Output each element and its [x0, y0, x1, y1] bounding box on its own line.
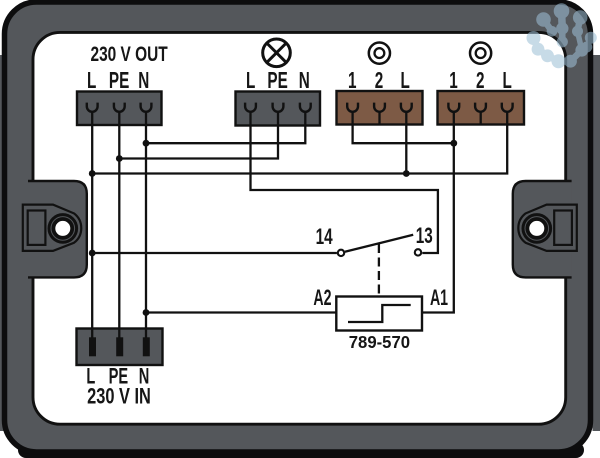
wire N vertical [145, 112, 147, 338]
wire PE vertical [118, 112, 120, 338]
svg-text:230 V IN: 230 V IN [87, 384, 151, 409]
svg-text:230 V OUT: 230 V OUT [90, 41, 168, 65]
switch blade [345, 235, 413, 252]
svg-text:N: N [138, 68, 149, 94]
left screw hole [53, 219, 72, 238]
svg-text:1: 1 [449, 68, 457, 94]
junction node L/switch [89, 250, 96, 257]
terminal block lamp output [236, 92, 321, 127]
left screw outer ring [49, 215, 77, 243]
junction node brown1 L [403, 170, 410, 177]
junction node PE [116, 155, 123, 162]
svg-text:L: L [246, 68, 255, 94]
svg-text:2: 2 [476, 68, 484, 94]
svg-text:L: L [503, 68, 512, 94]
wire PE to lamp [119, 112, 278, 159]
svg-text:L: L [401, 68, 410, 94]
junction node L/line14 [89, 170, 96, 177]
wire N to relay A2 [146, 311, 336, 313]
terminal block 230V IN [77, 328, 163, 366]
svg-text:A2: A2 [313, 285, 331, 310]
relay latching step symbol [348, 305, 411, 322]
lamp symbol [263, 39, 291, 67]
right interior screw bump [513, 181, 572, 277]
svg-text:A1: A1 [430, 285, 448, 310]
svg-text:N: N [299, 68, 310, 94]
svg-text:789-570: 789-570 [349, 331, 410, 352]
junction node N/A2 [143, 309, 150, 316]
switch actuator dashed link [378, 244, 380, 296]
pushbutton symbol 2 [470, 43, 491, 64]
svg-text:PE: PE [267, 68, 287, 94]
wire L to switch contact 14 [92, 252, 337, 254]
relay coil box 789-570 [336, 297, 422, 331]
svg-text:13: 13 [416, 224, 433, 249]
enclosure bottom shadow [18, 442, 584, 458]
wire L bus horizontal [92, 112, 507, 174]
terminal block 230V OUT [77, 92, 162, 127]
terminal block pushbutton 1 (brown) [337, 91, 423, 126]
wire L vertical from 230V OUT to 230V IN [91, 112, 93, 338]
left interior screw bump [28, 181, 87, 277]
svg-text:L: L [87, 68, 96, 94]
right screw boss fixture [518, 205, 576, 251]
junction node pushbutton bus [450, 140, 457, 147]
pushbutton symbol 1 [369, 43, 390, 64]
switch contact 13 [415, 249, 421, 255]
left screw bracket [28, 211, 46, 245]
wire N to lamp [146, 112, 305, 144]
svg-text:14: 14 [316, 225, 333, 250]
wire lamp L to switch contact 13 [251, 112, 438, 253]
left edge shadow [0, 55, 5, 431]
wire pushbutton 1 terminals bus [353, 112, 454, 144]
left screw boss outline [23, 205, 81, 251]
watermark logo [527, 3, 597, 68]
junction node N [143, 140, 150, 147]
enclosure white interior [33, 32, 566, 424]
wire brown1 L stem [405, 112, 407, 174]
terminal block pushbutton 2 (brown) [438, 91, 525, 126]
right edge shadow [593, 55, 600, 431]
svg-text:PE: PE [109, 68, 129, 94]
wire pushbutton junction to relay A1 [422, 112, 454, 313]
svg-text:1: 1 [348, 68, 356, 94]
switch contact 14 [338, 250, 344, 256]
svg-text:2: 2 [375, 68, 383, 94]
